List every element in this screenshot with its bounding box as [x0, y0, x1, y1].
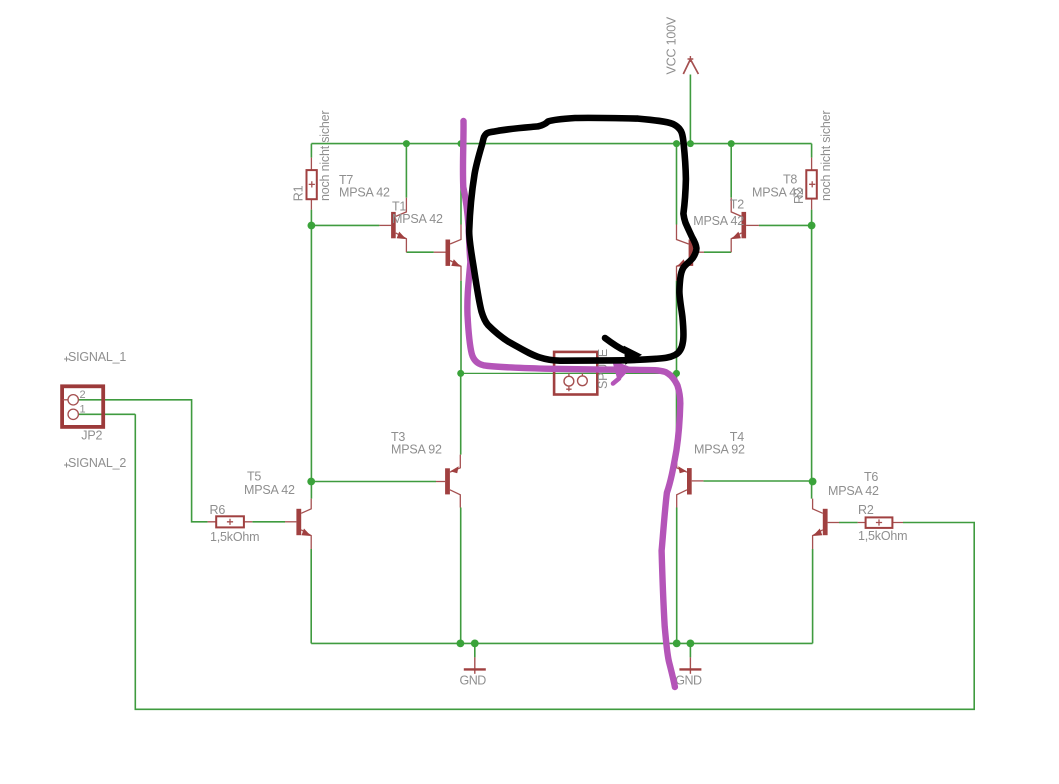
ground symbol GND left — [464, 657, 486, 673]
annotation black arrow — [605, 338, 625, 351]
wire top rail VCC net — [311, 143, 811, 145]
power symbol VCC — [683, 56, 698, 74]
wire R6 to T5 base — [252, 521, 285, 523]
annotation black loop — [469, 118, 696, 361]
svg-text:1: 1 — [80, 404, 86, 416]
svg-text:GND: GND — [675, 673, 702, 687]
svg-text:T5: T5 — [247, 470, 261, 484]
annotation purple stroke — [463, 121, 680, 687]
transistor T8 — [731, 198, 759, 253]
svg-text:MPSA 42: MPSA 42 — [339, 186, 390, 200]
resistor R2 (bottom right) — [858, 517, 903, 528]
node top rail junctions — [403, 140, 410, 147]
svg-text:MPSA 42: MPSA 42 — [244, 483, 295, 497]
svg-text:1,5kOhm: 1,5kOhm — [858, 529, 907, 543]
svg-text:T8: T8 — [783, 173, 797, 187]
transistor T4 — [677, 455, 704, 508]
svg-text:MPSA 42: MPSA 42 — [392, 212, 443, 226]
coil component SPULE — [554, 352, 597, 395]
svg-text:MPSA 42: MPSA 42 — [828, 484, 879, 498]
svg-text:MPSA 92: MPSA 92 — [391, 443, 442, 457]
wire left rail top (to R1) — [310, 144, 312, 158]
resistor R1 — [307, 158, 317, 210]
node T5 collector junction — [307, 478, 315, 486]
node middle left junction — [457, 370, 464, 377]
transistor T2 — [677, 225, 705, 281]
wire T7 emitter to T1 base — [406, 251, 433, 253]
wire T2 emitter down to node — [676, 281, 678, 374]
wire T7 collector — [405, 144, 407, 198]
wire right rail below R2 down to T6 — [811, 210, 813, 499]
annotation black arrowhead — [624, 346, 642, 365]
wire middle node across SPULE — [461, 372, 677, 374]
wire T1 collector — [460, 144, 462, 225]
transistor T3 — [436, 455, 460, 508]
wire left rail below R1 down to T5 — [310, 210, 312, 499]
svg-text:1,5kOhm: 1,5kOhm — [210, 530, 259, 544]
wire T8 collector — [730, 144, 732, 198]
wire T8 emitter to T2 base — [704, 251, 731, 253]
wire GND stub left — [474, 643, 476, 657]
wire JP2 pin2 to R6 — [79, 400, 208, 522]
ground symbol GND right — [679, 657, 701, 673]
wire VCC stub — [689, 75, 691, 144]
svg-text:T6: T6 — [864, 470, 878, 484]
wire T4 base — [703, 480, 811, 482]
svg-text:T2: T2 — [730, 198, 744, 212]
node R1 bottom junction — [308, 222, 316, 230]
svg-text:2: 2 — [80, 389, 86, 401]
svg-text:R6: R6 — [210, 503, 226, 517]
transistor T1 — [434, 225, 461, 281]
svg-text:MPSA 42: MPSA 42 — [693, 214, 744, 228]
svg-text:SIGNAL_1: SIGNAL_1 — [68, 350, 126, 364]
svg-text:noch nicht sicher: noch nicht sicher — [819, 111, 833, 201]
transistor T6 — [813, 499, 839, 549]
svg-text:MPSA 92: MPSA 92 — [694, 443, 745, 457]
wire T8 base — [759, 224, 812, 226]
node middle right junction — [673, 370, 680, 377]
wire T3 collector down — [460, 508, 462, 644]
wire T4 collector down — [676, 508, 678, 644]
wire GND stub right — [689, 643, 691, 657]
svg-text:MPSA 42: MPSA 42 — [752, 186, 803, 200]
node R2 bottom junction — [808, 222, 816, 230]
svg-text:JP2: JP2 — [81, 428, 102, 442]
svg-text:R2: R2 — [858, 503, 874, 517]
wire T5 emitter down — [310, 549, 312, 643]
connector JP2 — [62, 386, 103, 427]
transistor T7 — [379, 198, 406, 253]
wire T6 emitter down — [812, 549, 814, 643]
wire T7 base — [311, 224, 379, 226]
wire T1 emitter down to node — [460, 281, 462, 374]
node T6 collector junction — [809, 478, 817, 486]
wire T6 base to R2 — [839, 522, 858, 524]
wire R2 right to bottom return — [135, 414, 974, 709]
wire right rail top (to R2) — [811, 144, 813, 158]
wire JP2 pin1 — [79, 413, 136, 415]
svg-text:noch nicht sicher: noch nicht sicher — [318, 111, 332, 201]
resistor R6 — [208, 516, 253, 527]
wire T4 emitter from node — [676, 373, 678, 454]
transistor T5 — [285, 499, 311, 549]
annotation purple arrowhead — [612, 360, 632, 382]
wire T2 collector — [676, 144, 678, 225]
svg-text:VCC 100V: VCC 100V — [665, 16, 679, 74]
svg-text:SIGNAL_2: SIGNAL_2 — [68, 456, 126, 470]
resistor R2 (top right) — [806, 158, 817, 210]
svg-text:GND: GND — [460, 673, 487, 687]
node bottom rail junctions — [457, 640, 465, 648]
wire T3 base — [311, 481, 436, 483]
wire bottom rail — [311, 642, 812, 644]
wire T3 emitter from node — [460, 373, 462, 454]
svg-text:R1: R1 — [292, 185, 306, 201]
